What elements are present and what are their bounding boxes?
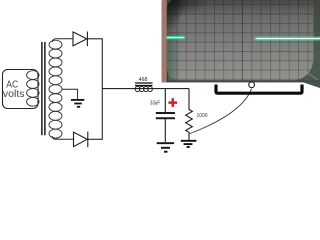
trace left segment [167,36,184,40]
ground capacitor [157,143,174,152]
bracket [216,85,302,94]
svg-text:1000: 1000 [197,113,208,119]
probe curve [189,89,252,134]
screen vignette left [167,0,181,82]
ground center tap [71,100,84,107]
screen vignette corner [167,0,314,60]
screen top-left dark patch [149,0,185,31]
probe terminal circle [249,82,255,88]
bezel corner highlight [304,71,318,81]
trace right segment [256,36,320,41]
photo bottom dark band [167,80,320,82]
bezel spill below photo [303,82,320,88]
screen left green cast [167,42,178,80]
AC source box [3,70,39,109]
transformer T1 core [42,42,45,135]
svg-text:volts: volts [3,89,25,100]
screen left edge line [167,0,168,82]
capacitor C1 [156,89,175,142]
svg-text:468: 468 [139,77,148,83]
inductor L1 winding [135,86,152,91]
svg-text:33uF: 33uF [150,100,160,106]
CRT screen [167,0,314,80]
wire secondary top to D1 [53,39,74,42]
diode D2 [74,132,88,148]
output wire [102,88,189,90]
bezel bottom-right corner wedge [295,56,320,80]
transformer T1 primary winding [27,71,39,107]
wire D2 cathode to rail [88,138,103,140]
center tap wire [62,89,78,99]
bezel pink strip [162,0,167,82]
wire D1 cathode to rail [87,38,102,40]
screen vignette top [167,0,314,16]
inductor L1 core bars [135,83,153,86]
resistor R1 [186,89,193,140]
diode D1 [73,32,87,47]
ground resistor [181,141,197,147]
transformer T1 secondary winding [49,40,62,138]
graticule tick axes [167,13,320,15]
C1 polarity plus [168,98,177,107]
wire secondary bottom to D2 [53,136,74,139]
screen grid [149,0,320,82]
wire DC rail vertical [101,38,103,140]
oscilloscope photo bezel [162,0,320,82]
page background [0,0,320,180]
